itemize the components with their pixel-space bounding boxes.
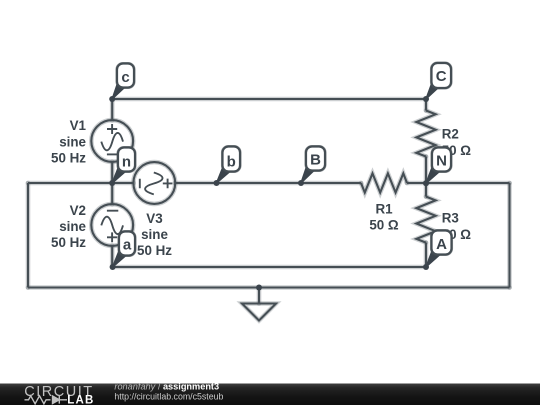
svg-text:b: b	[227, 153, 236, 170]
svg-text:sine: sine	[141, 227, 168, 242]
svg-text:R1: R1	[375, 201, 393, 216]
node tag c	[112, 62, 135, 99]
node b junction	[214, 180, 220, 186]
svg-text:LAB: LAB	[67, 394, 94, 405]
wire right outer (N to bottom)	[508, 183, 510, 288]
node tag a	[113, 230, 137, 267]
svg-text:50 Ω: 50 Ω	[369, 217, 399, 232]
decorative soft-edge underlay (halo duplicate of all wires/components)	[28, 99, 510, 321]
node tag C	[426, 62, 452, 99]
svg-text:V2: V2	[70, 203, 86, 218]
CircuitLab logo wordmark	[24, 384, 94, 405]
resistor R2	[416, 111, 435, 157]
svg-text:50 Hz: 50 Hz	[51, 151, 86, 166]
svg-text:B: B	[310, 151, 321, 168]
ground	[242, 288, 276, 321]
footer bar	[0, 384, 540, 405]
node tag A	[426, 229, 453, 267]
logo diode	[53, 396, 68, 404]
wire R3 top lead	[425, 183, 427, 196]
node tag B	[301, 145, 326, 183]
wire V1 top lead	[111, 99, 113, 120]
svg-text:C: C	[436, 68, 447, 85]
wire middle rail left (left edge to V3)	[28, 182, 134, 184]
wire middle rail (V3 to R1)	[175, 182, 361, 184]
svg-text:R2: R2	[442, 127, 459, 142]
wire V2 top lead	[111, 183, 113, 204]
node B junction	[298, 180, 304, 186]
wire V1 bottom lead	[111, 162, 113, 183]
svg-text:A: A	[436, 236, 447, 253]
wire left outer (n to bottom)	[27, 183, 29, 288]
voltage source V3 (sine, horizontal, + right)	[133, 162, 175, 204]
voltage source V1 (sine, + top)	[91, 120, 133, 162]
wire V2 bottom lead	[111, 246, 113, 267]
resistor R1	[361, 173, 407, 192]
svg-text:c: c	[121, 69, 129, 86]
svg-text:V3: V3	[146, 211, 162, 226]
node c junction	[109, 96, 115, 102]
svg-text:sine: sine	[59, 219, 86, 234]
node tag n	[112, 146, 136, 183]
wire bottom rail a-A	[113, 266, 426, 268]
svg-text:V1: V1	[70, 118, 87, 133]
node N junction	[423, 180, 429, 186]
svg-text:50 Hz: 50 Hz	[137, 243, 172, 258]
wire R2 top lead	[425, 99, 427, 111]
node a junction	[110, 264, 116, 270]
svg-text:sine: sine	[59, 134, 86, 149]
wire R2 bottom lead	[425, 157, 427, 184]
node A junction	[423, 264, 429, 270]
wire R3 bottom lead	[425, 243, 427, 267]
svg-text:http://circuitlab.com/c5steub: http://circuitlab.com/c5steub	[114, 392, 223, 402]
svg-text:R3: R3	[442, 211, 459, 226]
wire bottom outer	[28, 286, 510, 288]
svg-text:N: N	[436, 152, 447, 169]
svg-text:a: a	[123, 236, 132, 253]
node C junction	[423, 96, 429, 102]
footer credit text	[114, 382, 223, 402]
node n junction	[109, 180, 115, 186]
ground junction	[256, 285, 262, 291]
wire top rail c-C	[112, 98, 426, 100]
resistor R3	[416, 197, 435, 243]
voltage source V2 (sine, − top)	[91, 204, 133, 246]
svg-text:ronanfahy / assignment3: ronanfahy / assignment3	[114, 382, 219, 392]
logo resistor zigzag	[25, 396, 51, 404]
wire middle rail right (R1 to right edge)	[407, 182, 510, 184]
node tag b	[217, 145, 242, 183]
svg-text:50 Hz: 50 Hz	[51, 235, 86, 250]
node tag N	[426, 146, 452, 183]
svg-text:n: n	[122, 154, 131, 171]
